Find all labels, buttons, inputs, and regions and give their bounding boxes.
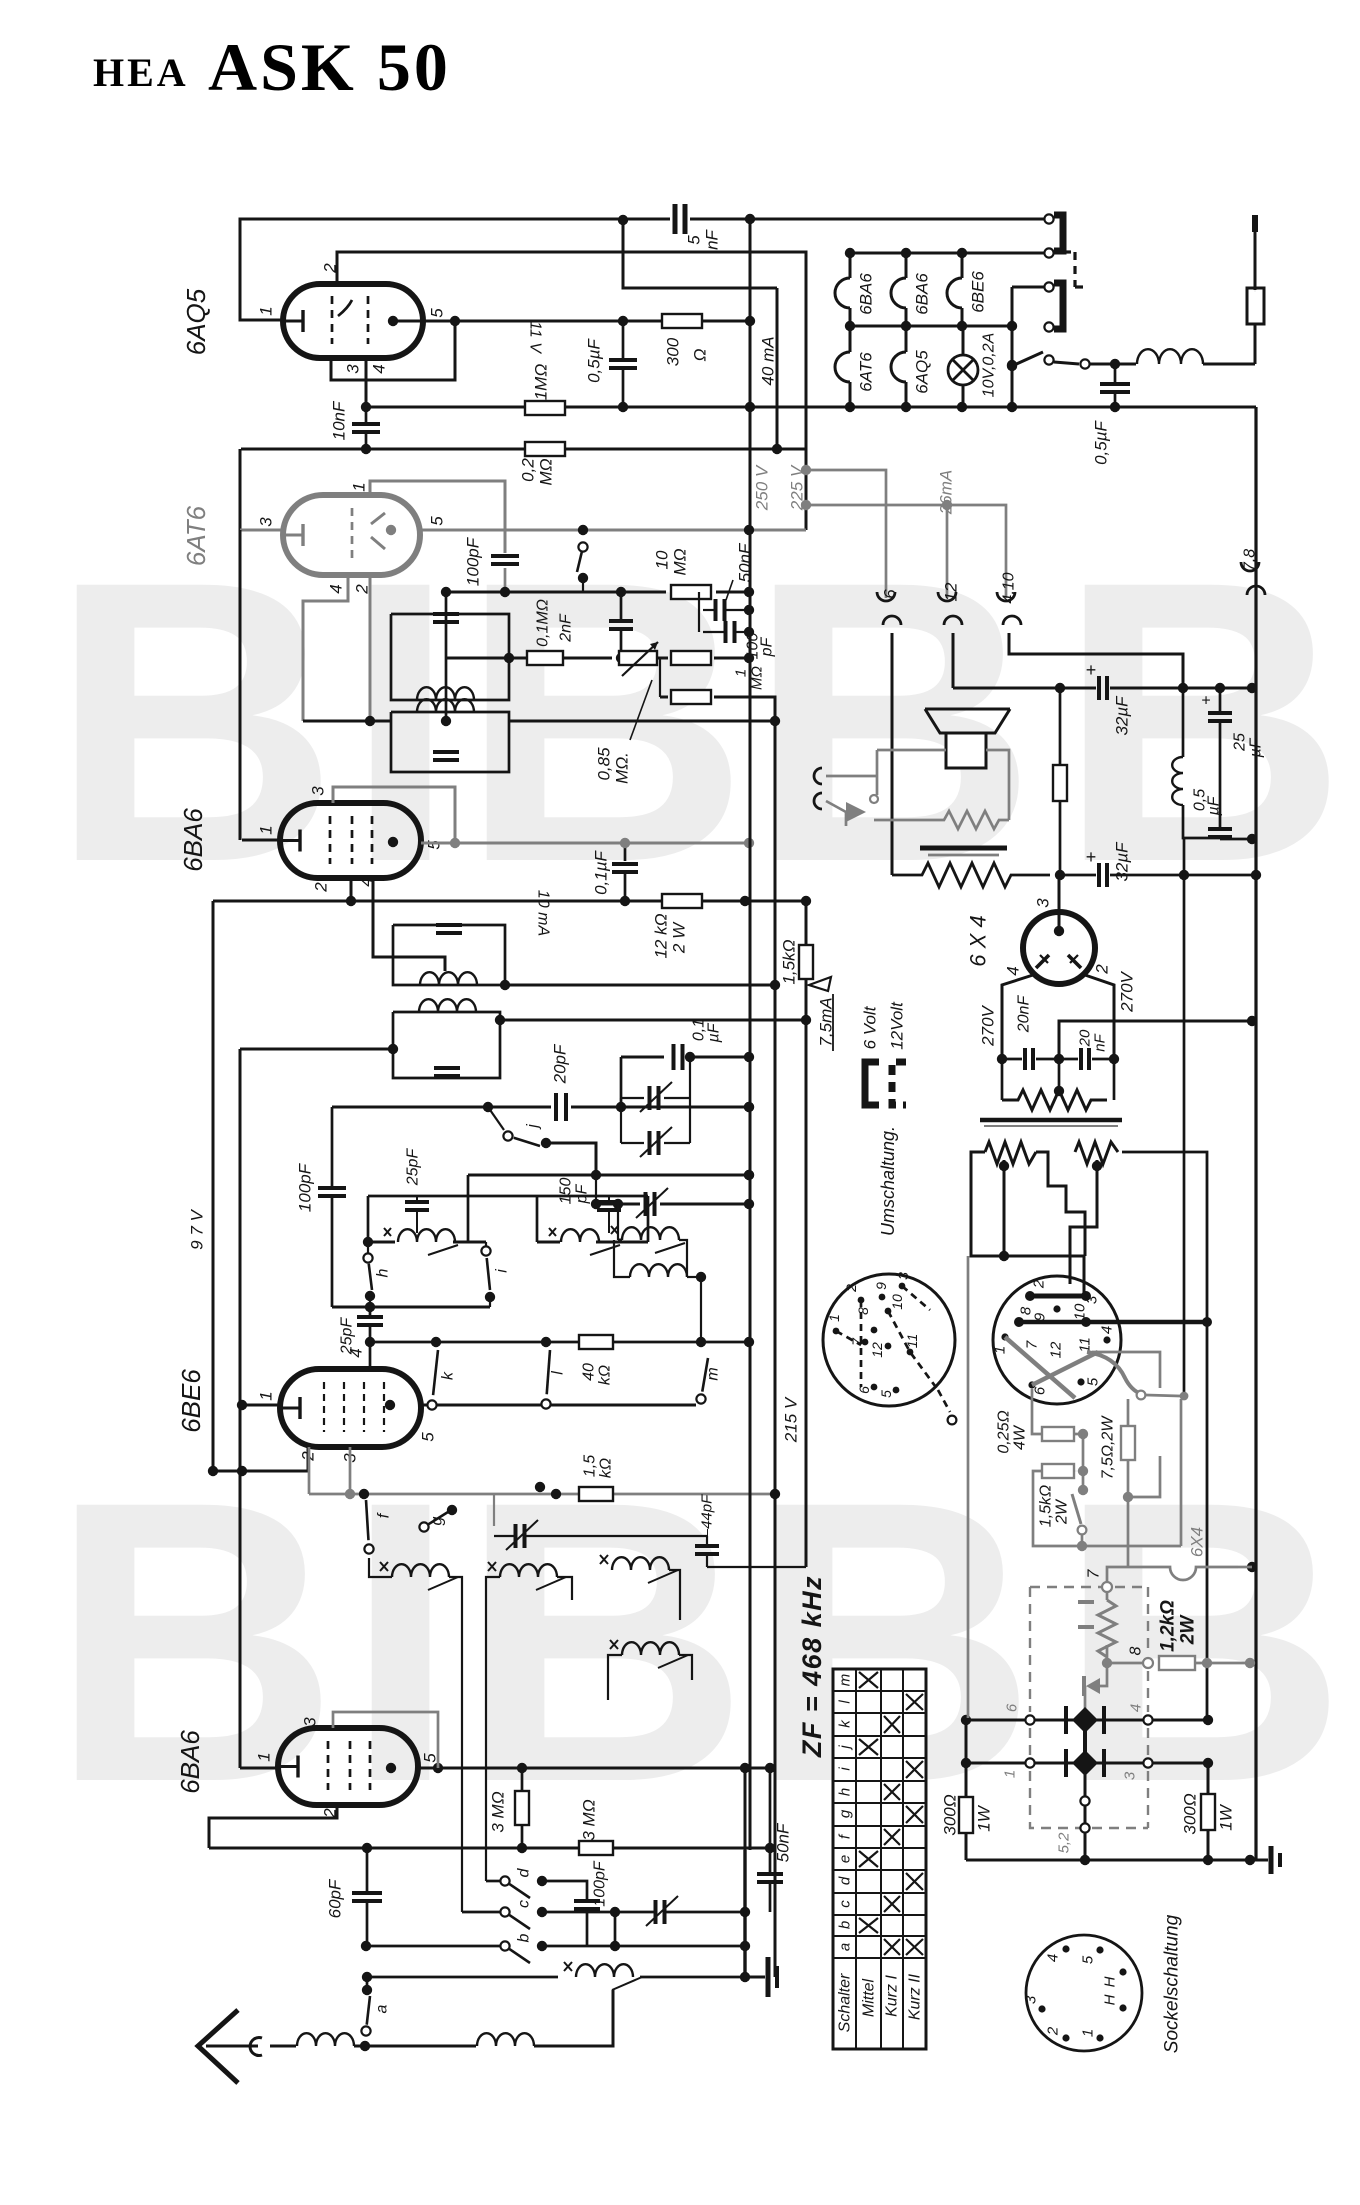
- wire: [367, 1976, 558, 1979]
- wire: [242, 1404, 280, 1407]
- junction: [441, 587, 451, 597]
- svg-text:1: 1: [257, 306, 276, 315]
- svg-text:10 mA: 10 mA: [535, 890, 552, 936]
- wire: [369, 1558, 392, 1577]
- wire: [621, 1056, 664, 1059]
- wire: [542, 1911, 615, 1914]
- svg-text:a: a: [837, 1943, 854, 1951]
- junction: [345, 1489, 355, 1499]
- svg-text:7: 7: [1086, 1568, 1103, 1578]
- wire: [365, 432, 368, 449]
- svg-text:7,5Ω,2W: 7,5Ω,2W: [1100, 1415, 1117, 1480]
- wire: [1033, 1471, 1181, 1546]
- svg-text:pF: pF: [759, 636, 776, 657]
- wire: [367, 1242, 369, 1253]
- svg-text:10: 10: [889, 1294, 905, 1310]
- svg-text:a: a: [374, 2004, 391, 2013]
- coil: [419, 999, 476, 1012]
- svg-text:2: 2: [1093, 964, 1112, 975]
- junction: [845, 402, 855, 412]
- capacitor: [654, 1900, 658, 1924]
- wire: [493, 1494, 495, 1526]
- junction: [361, 1941, 371, 1951]
- wire: [905, 382, 908, 407]
- wire: [1128, 1456, 1160, 1497]
- wire: [213, 1470, 308, 1473]
- wire: [1092, 1058, 1114, 1061]
- Sockelschaltung socket: [1026, 1935, 1142, 2051]
- wire: [660, 696, 668, 699]
- switch: [419, 1522, 428, 1531]
- junction: [620, 838, 630, 848]
- contact: [1025, 1758, 1034, 1767]
- coil: [398, 1229, 455, 1242]
- resistor: [527, 651, 563, 665]
- svg-text:100pF: 100pF: [464, 536, 483, 586]
- wire: [209, 1805, 337, 1848]
- wire: [1127, 1460, 1130, 1567]
- junction: [744, 1337, 754, 1347]
- capacitor: [724, 621, 728, 643]
- wire: [1090, 363, 1115, 366]
- svg-text:2W: 2W: [1054, 1498, 1071, 1525]
- junction: [386, 1763, 396, 1773]
- junction: [901, 402, 911, 412]
- svg-text:6: 6: [856, 1386, 872, 1394]
- wire: [1081, 1535, 1084, 1546]
- wire: [563, 657, 612, 660]
- capacitor: [357, 1315, 383, 1319]
- coil: [1137, 349, 1203, 364]
- junction: [517, 1763, 527, 1773]
- wire: [622, 321, 625, 360]
- wire: [445, 592, 447, 614]
- svg-text:20nF: 20nF: [1016, 995, 1033, 1034]
- coil: [417, 687, 474, 700]
- junction: [1215, 683, 1225, 693]
- wire: [967, 1256, 970, 1718]
- svg-text:b: b: [837, 1921, 854, 1929]
- wire: [391, 614, 509, 700]
- switch: [500, 1907, 509, 1916]
- capacitor: [612, 862, 638, 866]
- svg-text:6BA6: 6BA6: [178, 808, 208, 872]
- wire: [953, 687, 1096, 690]
- junction: [1247, 834, 1257, 844]
- junction: [801, 896, 811, 906]
- junction: [744, 653, 754, 663]
- wire: [849, 326, 852, 352]
- ground symbol right: [1269, 1846, 1274, 1874]
- coil: [420, 972, 477, 985]
- wire: [743, 1850, 746, 1982]
- wire: [270, 2045, 296, 2048]
- wire: [679, 1655, 692, 1680]
- svg-text:k: k: [440, 1371, 457, 1380]
- wire: [961, 308, 964, 326]
- svg-text:2nF: 2nF: [558, 613, 575, 643]
- svg-text:50nF: 50nF: [736, 542, 755, 582]
- wire: [664, 1097, 690, 1099]
- svg-text:10V,0,2A: 10V,0,2A: [981, 333, 998, 398]
- junction: [770, 1489, 780, 1499]
- junction: [1202, 1658, 1212, 1668]
- svg-text:6BA6: 6BA6: [857, 273, 876, 315]
- wire: [687, 1276, 701, 1278]
- svg-text:4: 4: [1128, 1704, 1145, 1712]
- svg-text:l: l: [550, 1371, 567, 1375]
- wire: [703, 631, 725, 633]
- resistor: [1042, 1464, 1074, 1478]
- capacitor: [514, 1524, 518, 1548]
- resistor: [579, 1841, 613, 1855]
- svg-text:g: g: [429, 1516, 446, 1525]
- junction: [1203, 1758, 1213, 1768]
- junction: [1053, 1305, 1060, 1312]
- svg-text:10nF: 10nF: [330, 400, 349, 440]
- wire: [622, 368, 625, 407]
- svg-text:2: 2: [312, 882, 331, 893]
- junction: [365, 1302, 375, 1312]
- wire: [331, 321, 455, 380]
- wire: [242, 839, 280, 842]
- wire: [692, 1056, 749, 1059]
- wire: [1084, 1832, 1087, 1860]
- svg-text:0,2: 0,2: [519, 458, 538, 482]
- wire: [239, 1471, 242, 1768]
- svg-text:9: 9: [873, 1282, 889, 1290]
- wire: [1220, 838, 1252, 841]
- wire: [1063, 250, 1075, 253]
- junction: [1202, 1317, 1212, 1327]
- svg-text:+: +: [1086, 660, 1097, 680]
- capacitor: [436, 923, 462, 927]
- resistor: [1053, 765, 1067, 801]
- wire: [206, 2045, 258, 2048]
- wire: [640, 1976, 745, 1979]
- svg-text:270V: 270V: [979, 1004, 998, 1046]
- wire: [213, 900, 665, 903]
- wire: [453, 1241, 468, 1244]
- junction: [1007, 402, 1017, 412]
- junction: [862, 1339, 869, 1346]
- wire: [608, 1655, 622, 1700]
- svg-text:1,5kΩ: 1,5kΩ: [780, 939, 799, 984]
- wire: [744, 1768, 747, 1850]
- junction: [1055, 683, 1065, 693]
- wire: [657, 657, 668, 660]
- wire: [595, 1175, 597, 1204]
- coil: [630, 1264, 687, 1277]
- svg-text:6X4: 6X4: [1188, 1527, 1207, 1557]
- wire: [1147, 1728, 1149, 1755]
- resistor: [515, 1791, 529, 1825]
- wire: [1238, 1566, 1252, 1569]
- junction: [388, 837, 398, 847]
- svg-text:6 X 4: 6 X 4: [966, 915, 991, 966]
- capacitor: [433, 612, 459, 616]
- resistor zigzag (field coil): [892, 863, 1050, 887]
- wire: [1012, 286, 1044, 289]
- junction: [1055, 870, 1065, 880]
- capacitor: [714, 599, 718, 621]
- junction: [744, 1052, 754, 1062]
- junction: [485, 1292, 495, 1302]
- capacitor: [405, 1200, 429, 1204]
- junction: [885, 1308, 892, 1315]
- junction: [1092, 1161, 1102, 1171]
- capacitor: [554, 1093, 558, 1121]
- capacitor: [1100, 382, 1130, 386]
- wire: [613, 1847, 770, 1850]
- svg-text:250 V: 250 V: [753, 464, 772, 511]
- wire: [736, 631, 749, 633]
- wire: [1195, 1662, 1250, 1665]
- wire: [774, 721, 777, 1977]
- junction: [745, 402, 755, 412]
- junction: [483, 1102, 493, 1112]
- capacitor: [1023, 1048, 1027, 1070]
- junction: [999, 1251, 1009, 1261]
- junction: [541, 1138, 551, 1148]
- wire: [240, 529, 283, 532]
- svg-text:µF: µF: [1248, 737, 1265, 758]
- junction: [744, 1170, 754, 1180]
- junction: [1081, 1291, 1091, 1301]
- junction: [1110, 359, 1120, 369]
- wire: [1002, 1058, 1022, 1061]
- wire: [525, 1535, 556, 1537]
- junction: [450, 316, 460, 326]
- coil: [576, 1964, 633, 1977]
- wire: [905, 326, 908, 352]
- svg-text:4: 4: [1099, 1326, 1116, 1334]
- junction: [447, 1505, 457, 1515]
- svg-text:1: 1: [1002, 1770, 1019, 1778]
- resistor: [525, 442, 565, 456]
- contact: [1143, 1658, 1153, 1668]
- svg-text:5,2: 5,2: [1056, 1832, 1073, 1854]
- capacitor: [434, 1066, 460, 1070]
- svg-text:5: 5: [425, 840, 444, 850]
- svg-text:1: 1: [257, 825, 276, 834]
- capacitor: [1097, 676, 1101, 700]
- wire: [486, 1577, 500, 1881]
- wire: [620, 631, 623, 658]
- wire: [1182, 688, 1185, 757]
- tube V6 6X4: [1023, 912, 1095, 984]
- junction: [744, 525, 754, 535]
- wire: [849, 253, 852, 278]
- svg-text:Kurz II: Kurz II: [907, 1973, 924, 2020]
- wire: [849, 308, 852, 326]
- wire: [769, 1768, 772, 1872]
- resistor: [525, 401, 565, 415]
- svg-text:µF: µF: [706, 1022, 723, 1043]
- junction: [1077, 1378, 1084, 1385]
- wire: [416, 1210, 418, 1233]
- wire: [1182, 805, 1185, 831]
- junction: [541, 1337, 551, 1347]
- junction: [744, 1102, 754, 1112]
- terminal 4,10: [997, 592, 1015, 601]
- wire: [966, 1859, 1268, 1862]
- wire: [703, 609, 715, 611]
- vibrator contacts gray: [1005, 1337, 1075, 1398]
- junction: [610, 1907, 620, 1917]
- wire: [368, 1195, 468, 1198]
- junction: [1247, 1562, 1257, 1572]
- wire: [595, 1203, 640, 1206]
- wire: [337, 252, 806, 284]
- wire: [418, 1767, 770, 1770]
- wire: [1012, 352, 1043, 366]
- wire: [333, 1712, 438, 1768]
- junction: [1102, 1658, 1112, 1668]
- junction: [362, 1985, 372, 1995]
- junction: [616, 1102, 626, 1112]
- resistor: [579, 1487, 613, 1501]
- svg-text:4: 4: [370, 364, 389, 373]
- svg-text:2: 2: [843, 1284, 859, 1293]
- junction: [801, 500, 811, 510]
- junction: [1078, 1466, 1088, 1476]
- svg-text:6: 6: [1004, 1703, 1021, 1712]
- capacitor: [1208, 827, 1232, 831]
- wire: [331, 1107, 334, 1186]
- svg-text:m: m: [705, 1367, 722, 1380]
- junction: [901, 321, 911, 331]
- contact: [1044, 214, 1053, 223]
- wire: [1115, 363, 1136, 366]
- wire: [700, 320, 750, 323]
- junction: [360, 2041, 370, 2051]
- wire: [546, 1143, 596, 1175]
- junction: [1077, 1541, 1087, 1551]
- tube envelope: [283, 284, 423, 358]
- junction: [765, 1843, 775, 1853]
- junction: [744, 587, 754, 597]
- svg-text:0,5µF: 0,5µF: [585, 337, 604, 382]
- junction: [237, 1400, 247, 1410]
- junction: [957, 248, 967, 258]
- junction: [1038, 2005, 1045, 2012]
- coil: [477, 2033, 534, 2046]
- wire: [350, 878, 353, 901]
- wire: [369, 1307, 372, 1317]
- capacitor: [318, 1186, 346, 1190]
- svg-text:3 MΩ: 3 MΩ: [580, 1799, 599, 1840]
- resistor: [662, 894, 702, 908]
- junction: [537, 1941, 547, 1951]
- wire: [952, 633, 955, 688]
- wire: [805, 1020, 808, 1567]
- junction: [616, 587, 626, 597]
- wire: [621, 1097, 644, 1099]
- coil: [417, 699, 474, 712]
- svg-text:Ω: Ω: [691, 348, 710, 361]
- svg-text:–44pF: –44pF: [699, 1494, 716, 1538]
- wire: [965, 1833, 968, 1860]
- resistor: [579, 1335, 613, 1349]
- primary winding right zigzag: [1075, 1142, 1118, 1164]
- svg-text:6AQ5: 6AQ5: [913, 350, 932, 394]
- svg-text:40 mA: 40 mA: [759, 336, 778, 385]
- wire: [565, 448, 806, 451]
- capacitor: [757, 1872, 783, 1876]
- wire: [551, 1404, 696, 1407]
- wire: [571, 1106, 749, 1109]
- resistor: [671, 585, 711, 599]
- wire: [836, 1331, 861, 1345]
- junction: [385, 1400, 395, 1410]
- wire: [365, 2045, 476, 2048]
- wire: [1106, 1592, 1109, 1600]
- wire: [1029, 1728, 1031, 1755]
- svg-text:ZF = 468 kHz: ZF = 468 kHz: [797, 1575, 827, 1758]
- resistor: [959, 1797, 973, 1833]
- wire: [725, 609, 749, 611]
- wire: [664, 1142, 690, 1144]
- wire: [1009, 633, 1183, 688]
- svg-text:0,5µF: 0,5µF: [1092, 419, 1111, 464]
- wire: [1147, 1587, 1149, 1655]
- wire: [504, 568, 507, 592]
- wire: [850, 325, 1012, 328]
- vibrator mid bar: [1019, 1320, 1207, 1325]
- junction: [957, 321, 967, 331]
- svg-text:pF: pF: [574, 1183, 591, 1204]
- wire: [624, 843, 627, 861]
- junction: [770, 980, 780, 990]
- svg-text:3: 3: [1084, 1295, 1101, 1304]
- junction: [500, 587, 510, 597]
- junction: [388, 316, 398, 326]
- svg-text:8: 8: [1128, 1646, 1145, 1655]
- junction: [961, 1715, 971, 1725]
- wire: [1070, 1160, 1097, 1284]
- wire: [332, 1106, 551, 1109]
- svg-text:6BE6: 6BE6: [969, 271, 988, 313]
- wire: [1036, 1058, 1059, 1061]
- wire: [1083, 1720, 1087, 1763]
- capacitor: [672, 1044, 676, 1070]
- wire: [565, 406, 1256, 409]
- primary winding left zigzag: [985, 1142, 1036, 1164]
- svg-text:3: 3: [895, 1272, 911, 1280]
- wire: [582, 578, 584, 592]
- svg-text:40: 40: [581, 1363, 598, 1381]
- wire: [534, 1990, 613, 2046]
- wire: [1183, 831, 1220, 838]
- wire: [1122, 1152, 1207, 1720]
- wire: [706, 1554, 708, 1567]
- wire: [630, 680, 652, 740]
- contact: [1044, 248, 1053, 257]
- junction: [893, 1387, 900, 1394]
- wire: [421, 1404, 428, 1407]
- wire: [365, 358, 368, 407]
- coil: [612, 1557, 669, 1570]
- junction: [495, 1015, 505, 1025]
- capacitor: [609, 358, 637, 362]
- svg-text:4: 4: [327, 584, 346, 593]
- wire: [1073, 252, 1076, 287]
- svg-text:h: h: [375, 1268, 392, 1277]
- wire: [393, 925, 505, 985]
- svg-text:60pF: 60pF: [326, 1878, 345, 1918]
- wire: [307, 1447, 310, 1471]
